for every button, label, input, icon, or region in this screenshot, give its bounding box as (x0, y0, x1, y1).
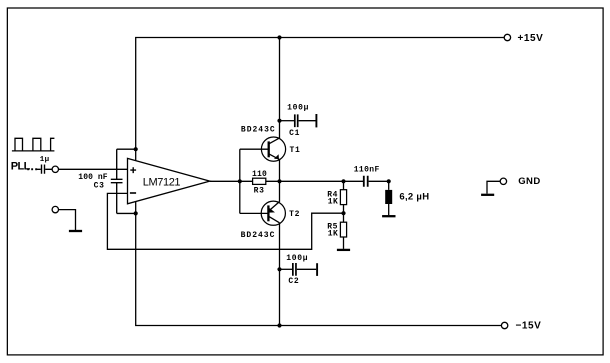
svg-text:1K: 1K (328, 198, 339, 207)
terminal GND (500, 178, 506, 184)
svg-text:PLL: PLL (11, 161, 31, 173)
svg-text:+15V: +15V (518, 33, 544, 44)
wire V+ supply pin and +15V rail (136, 38, 505, 161)
transistor T2 BD243C (261, 201, 285, 225)
svg-text:BD243C: BD243C (241, 125, 276, 134)
svg-text:6,2 µH: 6,2 µH (399, 191, 429, 202)
transistor T1 BD243C (261, 137, 285, 161)
terminal -15V (501, 322, 507, 328)
svg-text:C3: C3 (94, 182, 105, 191)
svg-text:1µ: 1µ (40, 156, 50, 164)
wire op-amp output (210, 180, 253, 182)
resistor R4 1K (340, 190, 346, 205)
node collector/rail junction (277, 35, 281, 39)
capacitor 110nF output (364, 176, 389, 187)
label PLL... (11, 161, 37, 173)
wire input to op-amp + input (59, 168, 128, 170)
wire (59, 210, 76, 230)
svg-text:R3: R3 (254, 187, 265, 196)
wire base drive vertical (239, 149, 241, 213)
resistor R3 110 (253, 178, 266, 184)
svg-text:100µ: 100µ (286, 254, 308, 263)
node V- pin junction (134, 211, 138, 215)
resistor R5 1K (340, 222, 346, 237)
wire T1 emitter to output node (279, 160, 281, 182)
node R4/R5 feedback junction (341, 211, 345, 215)
terminal +15V (504, 34, 510, 40)
svg-text:LM7121: LM7121 (143, 177, 181, 189)
wire feedback network to inverting input (107, 193, 343, 249)
svg-text:GND: GND (518, 176, 540, 187)
svg-text:BD243C: BD243C (241, 231, 276, 240)
op-amp U1 LM7121 (128, 158, 210, 203)
input ground terminal (52, 206, 58, 212)
ground R5 (337, 249, 350, 251)
node output/base-drive junction (238, 179, 242, 183)
svg-text:110nF: 110nF (354, 165, 380, 174)
capacitor C3 100nF supply bypass (111, 149, 136, 213)
wire to T2 base (240, 212, 268, 214)
wire T2 collector to -15V rail (279, 223, 281, 326)
input terminal (52, 166, 58, 172)
wire R4 leads (343, 181, 345, 222)
svg-text:−15V: −15V (516, 320, 542, 331)
wire T2 emitter to output node (279, 181, 281, 202)
node output to R4 junction (341, 179, 345, 183)
ground (69, 230, 82, 232)
wire R3 to output node (266, 180, 363, 182)
wire GND terminal (487, 181, 500, 193)
ground inductor (382, 215, 395, 217)
wire V- supply pin and -15V rail (136, 202, 502, 326)
svg-text:T2: T2 (289, 210, 300, 219)
svg-text:C2: C2 (288, 277, 299, 286)
capacitor 1µ (input coupling) (37, 165, 53, 174)
svg-text:1K: 1K (328, 230, 339, 239)
ground (481, 194, 494, 196)
svg-text:100µ: 100µ (287, 104, 309, 113)
node V+ pin junction (134, 147, 138, 151)
svg-text:110: 110 (252, 170, 267, 179)
capacitor C1 100µ (277, 114, 316, 127)
node collector/rail junction (277, 323, 281, 327)
square wave input icon (12, 138, 55, 151)
node emitter junction (277, 179, 281, 183)
inductor 6,2 µH (385, 181, 392, 215)
node 110nF/inductor junction (387, 179, 391, 183)
svg-text:C1: C1 (289, 129, 300, 138)
capacitor C2 100µ (277, 263, 317, 276)
wire R5 bottom lead (343, 237, 345, 249)
wire to T1 base (240, 148, 268, 150)
wire T1 collector to +15V rail (279, 38, 281, 139)
svg-text:T1: T1 (290, 146, 301, 155)
